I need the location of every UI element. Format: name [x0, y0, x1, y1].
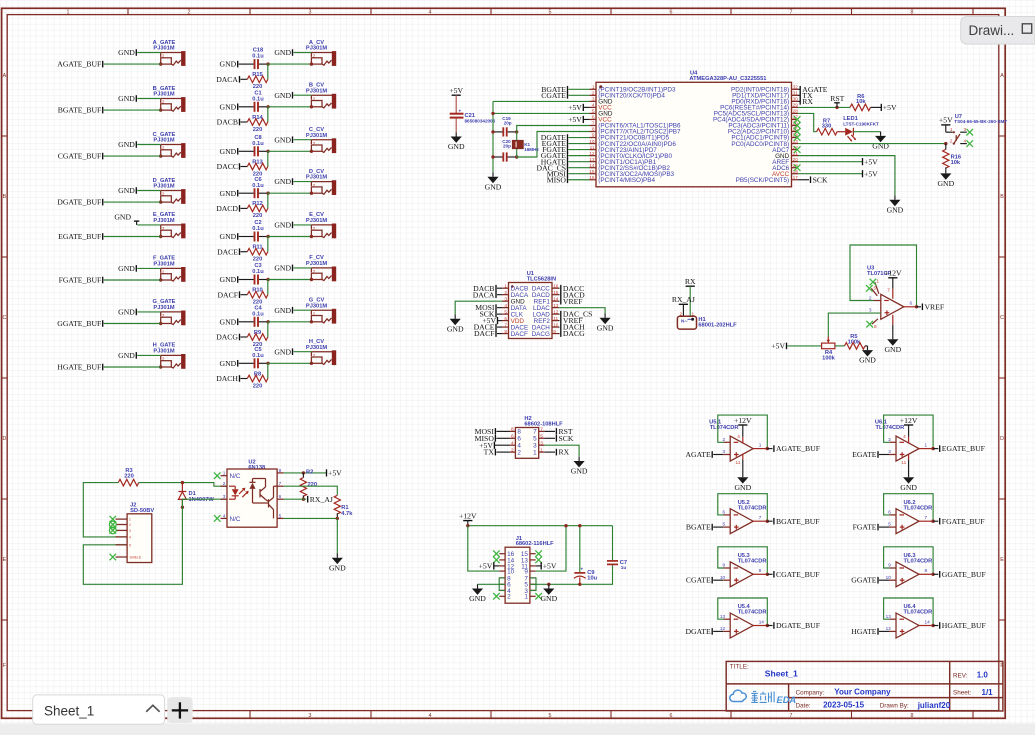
- net label HGATE (U6.4 +): [851, 627, 878, 636]
- wire U1 pin3 GND: [455, 301, 502, 314]
- svg-text:GND: GND: [571, 467, 588, 476]
- GND net label (E_GATE sleeve): [114, 213, 139, 225]
- wire U5.2 output: [753, 520, 767, 522]
- no-connect U3 pin8: [872, 319, 878, 324]
- wire DAC_CS to U4: [569, 167, 590, 169]
- junction node rail/pin5: [491, 112, 494, 115]
- junction node C1/R14: [266, 105, 269, 108]
- net label DACA (U1 pin2): [473, 290, 502, 299]
- svg-text:+5V: +5V: [939, 116, 953, 125]
- net label SCK (H2): [545, 434, 574, 443]
- svg-text:11: 11: [553, 316, 558, 321]
- power flag +5V (U4 pin6 VCC): [568, 115, 589, 124]
- svg-text:DGATE_BUF: DGATE_BUF: [57, 198, 101, 207]
- capacitor C7 1u: [607, 526, 627, 571]
- svg-text:(PCINT4/MISO)PB4: (PCINT4/MISO)PB4: [598, 177, 655, 184]
- wire J1 pin6 to GND: [478, 583, 506, 585]
- svg-text:7: 7: [504, 322, 507, 327]
- GND net label (F_GATE sleeve): [118, 264, 136, 273]
- svg-text:GND: GND: [274, 347, 291, 356]
- wire R8 up to junction: [267, 363, 269, 378]
- net label CGATE_BUF: [58, 152, 103, 161]
- junction node C5/R8: [266, 362, 269, 365]
- svg-text:ATMEGA328P-AU_C3225551: ATMEGA328P-AU_C3225551: [689, 76, 766, 82]
- net label CGATE (U4 pin2): [541, 91, 567, 100]
- net label EGATE_BUF: [933, 444, 985, 453]
- jack A_CV PJ301M: [306, 40, 336, 66]
- net label DACB: [217, 118, 240, 127]
- wire feedback loop U6.2: [889, 514, 896, 516]
- svg-text:PJ301M: PJ301M: [153, 305, 174, 311]
- junction node U5.1 out: [766, 447, 769, 450]
- svg-text:R11: R11: [252, 245, 262, 251]
- svg-text:6: 6: [279, 494, 282, 499]
- svg-text:Drawn By:: Drawn By:: [880, 702, 909, 709]
- wire GND to C_CV: [294, 139, 312, 141]
- net label DACC: [217, 162, 240, 171]
- op-amp U3 TL071CP: [867, 266, 904, 320]
- net label MOSI (U4 pin15): [547, 169, 568, 178]
- svg-text:GND: GND: [597, 323, 614, 332]
- jack F_CV PJ301M: [306, 255, 336, 281]
- GND net label (D_GATE sleeve): [118, 186, 136, 195]
- svg-text:2: 2: [888, 437, 891, 442]
- svg-text:GND: GND: [900, 483, 917, 492]
- svg-text:PJ301M: PJ301M: [153, 262, 174, 268]
- junction node C20/K1: [515, 155, 518, 158]
- no-connect J1 pin2: [493, 593, 500, 600]
- wire FGATE to U4: [569, 149, 590, 151]
- wire U4 to RX: [798, 100, 800, 102]
- net label FGATE (U4 pin11): [542, 145, 567, 154]
- svg-text:1: 1: [759, 442, 762, 447]
- svg-text:GND: GND: [220, 189, 237, 198]
- wire U1 LDAC to GND: [559, 308, 606, 314]
- wire J1 pins 8/6/4 bracket: [499, 578, 505, 591]
- svg-text:DACC: DACC: [217, 162, 238, 171]
- svg-text:PB5(SCK/PCINT5): PB5(SCK/PCINT5): [736, 177, 790, 184]
- svg-text:20p: 20p: [503, 143, 511, 148]
- GND net label (C3 left): [220, 275, 238, 284]
- svg-text:2: 2: [511, 447, 514, 452]
- wire MISO to U4: [569, 179, 590, 181]
- power flag +5V (U1 VDD): [482, 316, 502, 325]
- svg-text:9: 9: [553, 329, 556, 334]
- svg-text:GND: GND: [884, 345, 901, 354]
- svg-text:865080342006: 865080342006: [465, 119, 496, 124]
- svg-text:+5V: +5V: [771, 342, 785, 351]
- svg-text:8: 8: [911, 10, 914, 16]
- sheet tab Sheet_1: [33, 695, 165, 724]
- wire GND to F_CV: [294, 267, 312, 269]
- net label BGATE (U5.2 +): [686, 523, 712, 532]
- wire DGATE_BUF to jack: [104, 201, 161, 203]
- svg-text:TL074CDR: TL074CDR: [738, 505, 767, 511]
- svg-text:4: 4: [592, 103, 595, 108]
- no-connect J1 pin1: [535, 593, 542, 600]
- op-amp U5.4 TL074CDR: [720, 604, 767, 638]
- svg-text:7: 7: [887, 287, 890, 292]
- svg-text:GND: GND: [220, 275, 237, 284]
- svg-text:E: E: [3, 557, 7, 563]
- svg-text:HGATE_BUF: HGATE_BUF: [942, 621, 986, 630]
- connector J2 SD-50BV: [116, 503, 155, 563]
- svg-text:4: 4: [429, 713, 432, 719]
- wire feedback loop U5.4: [724, 618, 731, 620]
- svg-text:TL074CDR: TL074CDR: [738, 610, 767, 616]
- wire U6.4 output: [919, 625, 933, 627]
- GND net label (C2 left): [220, 232, 238, 241]
- resistor R6 10k: [850, 94, 881, 111]
- net label AGATE_BUF: [57, 60, 102, 69]
- no-connect U4 pin27: [794, 116, 801, 123]
- wire GGATE to U4: [569, 155, 590, 157]
- svg-text:TITLE:: TITLE:: [730, 664, 749, 671]
- svg-text:0.1u: 0.1u: [252, 183, 264, 189]
- svg-text:RX: RX: [802, 97, 813, 106]
- svg-text:220: 220: [253, 84, 263, 90]
- wire U3 pin3 from R4: [828, 313, 881, 336]
- svg-text:+: +: [581, 567, 584, 572]
- wire HGATE_BUF to jack: [104, 366, 161, 368]
- ground (J1 pin5 row): [540, 584, 557, 603]
- svg-text:0.1u: 0.1u: [252, 54, 264, 60]
- svg-text:2: 2: [950, 139, 953, 144]
- resistor R13 220: [241, 159, 268, 177]
- junction node U6.2 out: [931, 520, 934, 523]
- wire LED1 to GND: [853, 131, 880, 133]
- wire U5.4 output: [753, 625, 767, 627]
- op-amp U5.3 TL074CDR: [720, 553, 767, 587]
- svg-text:330: 330: [822, 124, 832, 130]
- junction node U6.1 out: [931, 447, 934, 450]
- svg-text:DACF: DACF: [474, 329, 495, 338]
- logo JLC EDA: [730, 690, 797, 705]
- wire U4 to AGATE: [798, 88, 800, 90]
- op-amp U5.1 TL074CDR: [709, 419, 762, 461]
- wire GND to C_GATE: [137, 144, 160, 146]
- svg-text:14: 14: [589, 163, 595, 168]
- svg-text:A: A: [3, 73, 7, 79]
- junction node C3/R10: [266, 278, 269, 281]
- svg-text:12: 12: [720, 626, 726, 631]
- svg-text:+5V: +5V: [449, 86, 463, 95]
- power flag +12V (U5.1): [742, 437, 744, 444]
- svg-text:3: 3: [540, 440, 543, 445]
- svg-text:220: 220: [253, 383, 263, 389]
- junction node U6.4 out: [931, 624, 934, 627]
- svg-text:D: D: [1000, 436, 1004, 442]
- svg-text:0.1u: 0.1u: [252, 353, 264, 359]
- svg-text:TL074CDR: TL074CDR: [876, 425, 905, 431]
- svg-text:TL074CDR: TL074CDR: [904, 558, 933, 564]
- wire GND to D_CV: [294, 181, 312, 183]
- power flag +5V (U7): [939, 116, 953, 133]
- wire U5.3 output: [753, 573, 767, 575]
- svg-text:1.0: 1.0: [977, 671, 989, 680]
- svg-text:GND: GND: [220, 232, 237, 241]
- svg-text:REV:: REV:: [953, 672, 968, 679]
- pushbutton U7 TS04-66-65-BK-260-SMT: [946, 114, 1008, 145]
- svg-text:DACG: DACG: [563, 329, 585, 338]
- svg-text:2: 2: [188, 10, 191, 16]
- svg-text:DACE: DACE: [217, 247, 238, 256]
- svg-text:SCK: SCK: [559, 434, 574, 443]
- svg-text:GND: GND: [118, 186, 135, 195]
- no-connect U4 pin26: [794, 122, 801, 129]
- wire feedback loop U3: [874, 300, 881, 302]
- svg-text:2: 2: [722, 437, 725, 442]
- net label DGATE_BUF: [767, 621, 820, 630]
- svg-text:Sheet:: Sheet:: [953, 690, 971, 697]
- wire J1 pin5 to caps: [530, 564, 613, 584]
- wire U4 pin21 GND: [798, 156, 895, 196]
- svg-text:GND: GND: [734, 483, 751, 492]
- ground (U1 LDAC): [597, 314, 614, 333]
- svg-text:28: 28: [793, 109, 799, 114]
- svg-text:1: 1: [129, 518, 131, 522]
- svg-text:+5V: +5V: [568, 103, 582, 112]
- ground (C21): [448, 132, 465, 151]
- svg-text:13: 13: [589, 157, 595, 162]
- resistor R3 220: [118, 468, 139, 486]
- wire feedback loop U5.3: [724, 567, 731, 569]
- svg-text:R15: R15: [252, 72, 262, 78]
- svg-text:5: 5: [129, 543, 131, 547]
- no-connect U2 pin4: [214, 515, 221, 522]
- ground (LED1): [872, 132, 889, 151]
- svg-text:7: 7: [540, 427, 543, 432]
- connector H2 68602-108HLF: [510, 416, 564, 458]
- svg-text:TL074CDR: TL074CDR: [710, 425, 739, 431]
- capacitor C18 0.1u: [239, 48, 268, 69]
- junction node C6/R12: [266, 192, 269, 195]
- net label DACE (U1 pin7): [474, 323, 502, 332]
- svg-text:C: C: [2, 315, 6, 321]
- svg-text:GND: GND: [274, 221, 291, 230]
- svg-text:10: 10: [720, 575, 726, 580]
- wire U2 pin8 to +5V: [284, 472, 327, 474]
- svg-text:GND: GND: [220, 102, 237, 111]
- net label RST: [830, 94, 844, 107]
- wire U3 output: [904, 306, 917, 308]
- svg-text:4: 4: [429, 10, 432, 16]
- svg-text:20p: 20p: [504, 121, 512, 126]
- svg-text:7: 7: [759, 515, 762, 520]
- svg-text:+12V: +12V: [884, 269, 902, 278]
- wire J1 pin9 to rail: [536, 526, 566, 571]
- svg-text:PJ301M: PJ301M: [306, 218, 327, 224]
- no-connect J2 pin2: [110, 521, 117, 528]
- wire feedback loop U6.1: [889, 441, 896, 443]
- net label EGATE (U4 pin10): [542, 139, 568, 148]
- svg-text:DACG: DACG: [216, 333, 238, 342]
- junction node R2 top: [302, 471, 305, 474]
- svg-text:29: 29: [793, 103, 799, 108]
- capacitor C21 865080342006: [450, 108, 496, 132]
- svg-text:9: 9: [722, 563, 725, 568]
- resistor R14 220: [241, 115, 268, 133]
- svg-text:7: 7: [592, 121, 595, 126]
- svg-text:CGATE: CGATE: [541, 91, 566, 100]
- svg-text:1: 1: [540, 447, 543, 452]
- svg-text:SCK: SCK: [813, 175, 828, 184]
- net label TX (H2): [484, 448, 510, 457]
- net label RX_AJ (H1): [672, 295, 695, 304]
- svg-text:PJ301M: PJ301M: [153, 349, 174, 355]
- wire junction to D_CV jack: [268, 192, 311, 194]
- svg-text:1/1: 1/1: [982, 688, 994, 697]
- svg-text:5: 5: [549, 10, 552, 16]
- wire rail to J1 pin10: [468, 526, 500, 571]
- svg-text:5: 5: [888, 522, 891, 527]
- net label VREF (U1 pin11): [559, 316, 583, 325]
- svg-text:6: 6: [670, 10, 673, 16]
- connector J1 68602-116HLF: [499, 536, 554, 603]
- svg-text:4.7k: 4.7k: [341, 511, 353, 517]
- svg-text:3: 3: [592, 97, 595, 102]
- resistor R1 4.7k: [334, 495, 353, 518]
- svg-text:+5V: +5V: [568, 115, 582, 124]
- svg-text:LTST-C190KFKT: LTST-C190KFKT: [843, 121, 879, 126]
- wire CGATE to U4: [569, 94, 590, 96]
- svg-text:GND: GND: [220, 317, 237, 326]
- resistor R12 220: [241, 201, 268, 219]
- wire AGATE_BUF to jack: [104, 63, 161, 65]
- svg-text:15: 15: [553, 290, 559, 295]
- capacitor C4 0.1u: [239, 305, 268, 326]
- wire U3 pin4 to GND: [892, 315, 894, 325]
- wire H2 pin3 to GND: [545, 445, 580, 457]
- svg-text:BGATE_BUF: BGATE_BUF: [58, 106, 102, 115]
- svg-text:8: 8: [511, 427, 514, 432]
- svg-text:220: 220: [253, 213, 263, 219]
- GND net label (A_CV sleeve): [274, 48, 292, 57]
- svg-text:Your Company: Your Company: [834, 688, 891, 697]
- net label DGATE_BUF: [57, 198, 102, 207]
- wire U2 pin3 loop to J2 pin5: [83, 499, 227, 584]
- svg-text:8: 8: [279, 468, 282, 473]
- svg-text:GND: GND: [220, 60, 237, 69]
- wire BGATE_BUF to jack: [104, 109, 161, 111]
- ground (R1): [329, 554, 346, 573]
- GND net label (B_CV sleeve): [274, 91, 292, 100]
- svg-text:8: 8: [925, 568, 928, 573]
- svg-text:1: 1: [592, 85, 595, 90]
- svg-text:1: 1: [504, 284, 507, 289]
- svg-text:1: 1: [692, 311, 695, 316]
- svg-text:+5V: +5V: [864, 157, 878, 166]
- wire GND to H_GATE: [137, 354, 160, 356]
- wire HGATE to U4: [569, 161, 590, 163]
- wire U4 to TX: [798, 94, 800, 96]
- no-connect U4 ADC6: [794, 164, 801, 171]
- svg-text:6: 6: [511, 434, 514, 439]
- button add sheet: [167, 697, 192, 723]
- svg-text:SHIELD: SHIELD: [130, 556, 142, 560]
- power flag +5V (U4 pin4 VCC): [568, 103, 589, 112]
- svg-text:6: 6: [722, 510, 725, 515]
- junction node R2 bottom: [302, 498, 305, 501]
- net label DACF: [217, 290, 239, 299]
- net label SCK (U4 pin17): [798, 175, 828, 184]
- wire GND to D_GATE: [137, 190, 160, 192]
- optocoupler U2 6N138: [221, 460, 284, 528]
- svg-text:10k: 10k: [951, 160, 961, 166]
- svg-text:DACB: DACB: [217, 118, 238, 127]
- svg-text:PJ301M: PJ301M: [153, 46, 174, 52]
- svg-text:TL074CDR: TL074CDR: [904, 610, 933, 616]
- svg-text:4: 4: [504, 303, 507, 308]
- jack E_CV PJ301M: [306, 212, 336, 238]
- wire U5.1 pin11 to GND: [742, 454, 744, 460]
- svg-text:14: 14: [553, 296, 559, 301]
- svg-text:68602-108HLF: 68602-108HLF: [524, 422, 563, 428]
- net label BGATE_BUF: [767, 517, 819, 526]
- no-connect U2 pin1: [214, 472, 221, 479]
- svg-text:GND: GND: [274, 91, 291, 100]
- GND net label (C4 left): [220, 317, 238, 326]
- svg-text:VREF: VREF: [563, 297, 583, 306]
- svg-text:DACA: DACA: [473, 290, 495, 299]
- svg-text:PJ301M: PJ301M: [153, 138, 174, 144]
- svg-text:3: 3: [309, 713, 312, 719]
- net label DAC_CS (U1 pin12): [559, 310, 593, 319]
- wire R15 up to junction: [267, 64, 269, 79]
- net label AGATE_BUF: [767, 444, 820, 453]
- wire RX_AJ to H1: [682, 304, 684, 316]
- no-connect J1 pin15: [535, 550, 542, 557]
- GND net label (B_GATE sleeve): [118, 94, 136, 103]
- wire FGATE to U6.2: [879, 526, 889, 528]
- svg-text:1: 1: [223, 471, 226, 476]
- GND net label (C_CV sleeve): [274, 135, 292, 144]
- wire DGATE to U4: [569, 137, 590, 139]
- svg-text:11: 11: [590, 145, 595, 150]
- wire AGATE to U5.1: [713, 454, 723, 456]
- svg-text:0.1u: 0.1u: [252, 96, 264, 102]
- svg-text:8: 8: [759, 568, 762, 573]
- GND net label (E_CV sleeve): [274, 221, 292, 230]
- svg-text:31: 31: [793, 91, 799, 96]
- crystal K1 16MHz: [513, 132, 540, 157]
- GND net label (C6 left): [220, 189, 238, 198]
- wire CGATE_BUF to jack: [104, 155, 161, 157]
- junction node U5.3 out: [766, 573, 769, 576]
- net label RX (H2): [545, 448, 570, 457]
- svg-text:+12V: +12V: [734, 416, 752, 425]
- svg-text:RX_AJ: RX_AJ: [310, 495, 333, 504]
- svg-text:32: 32: [793, 85, 799, 90]
- net label HGATE_BUF: [57, 363, 102, 372]
- resistor R7 330: [817, 118, 846, 135]
- wire GND to G_CV: [294, 309, 312, 311]
- svg-text:220: 220: [124, 473, 134, 479]
- ground (H2 pin3): [571, 457, 588, 476]
- capacitor C19 20p: [493, 116, 517, 137]
- wire U6.1 output: [919, 448, 933, 450]
- svg-text:GND: GND: [469, 594, 486, 603]
- ground (U6.1): [900, 473, 917, 492]
- net label TX (U4 pin31): [800, 91, 813, 100]
- svg-text:13: 13: [553, 303, 559, 308]
- svg-text:6: 6: [910, 300, 913, 305]
- ground (U5.1): [734, 473, 751, 492]
- svg-text:16: 16: [553, 284, 559, 289]
- power flag +5V (J1 pin12): [479, 562, 500, 571]
- svg-text:GND: GND: [118, 48, 135, 57]
- svg-text:R2: R2: [306, 470, 313, 476]
